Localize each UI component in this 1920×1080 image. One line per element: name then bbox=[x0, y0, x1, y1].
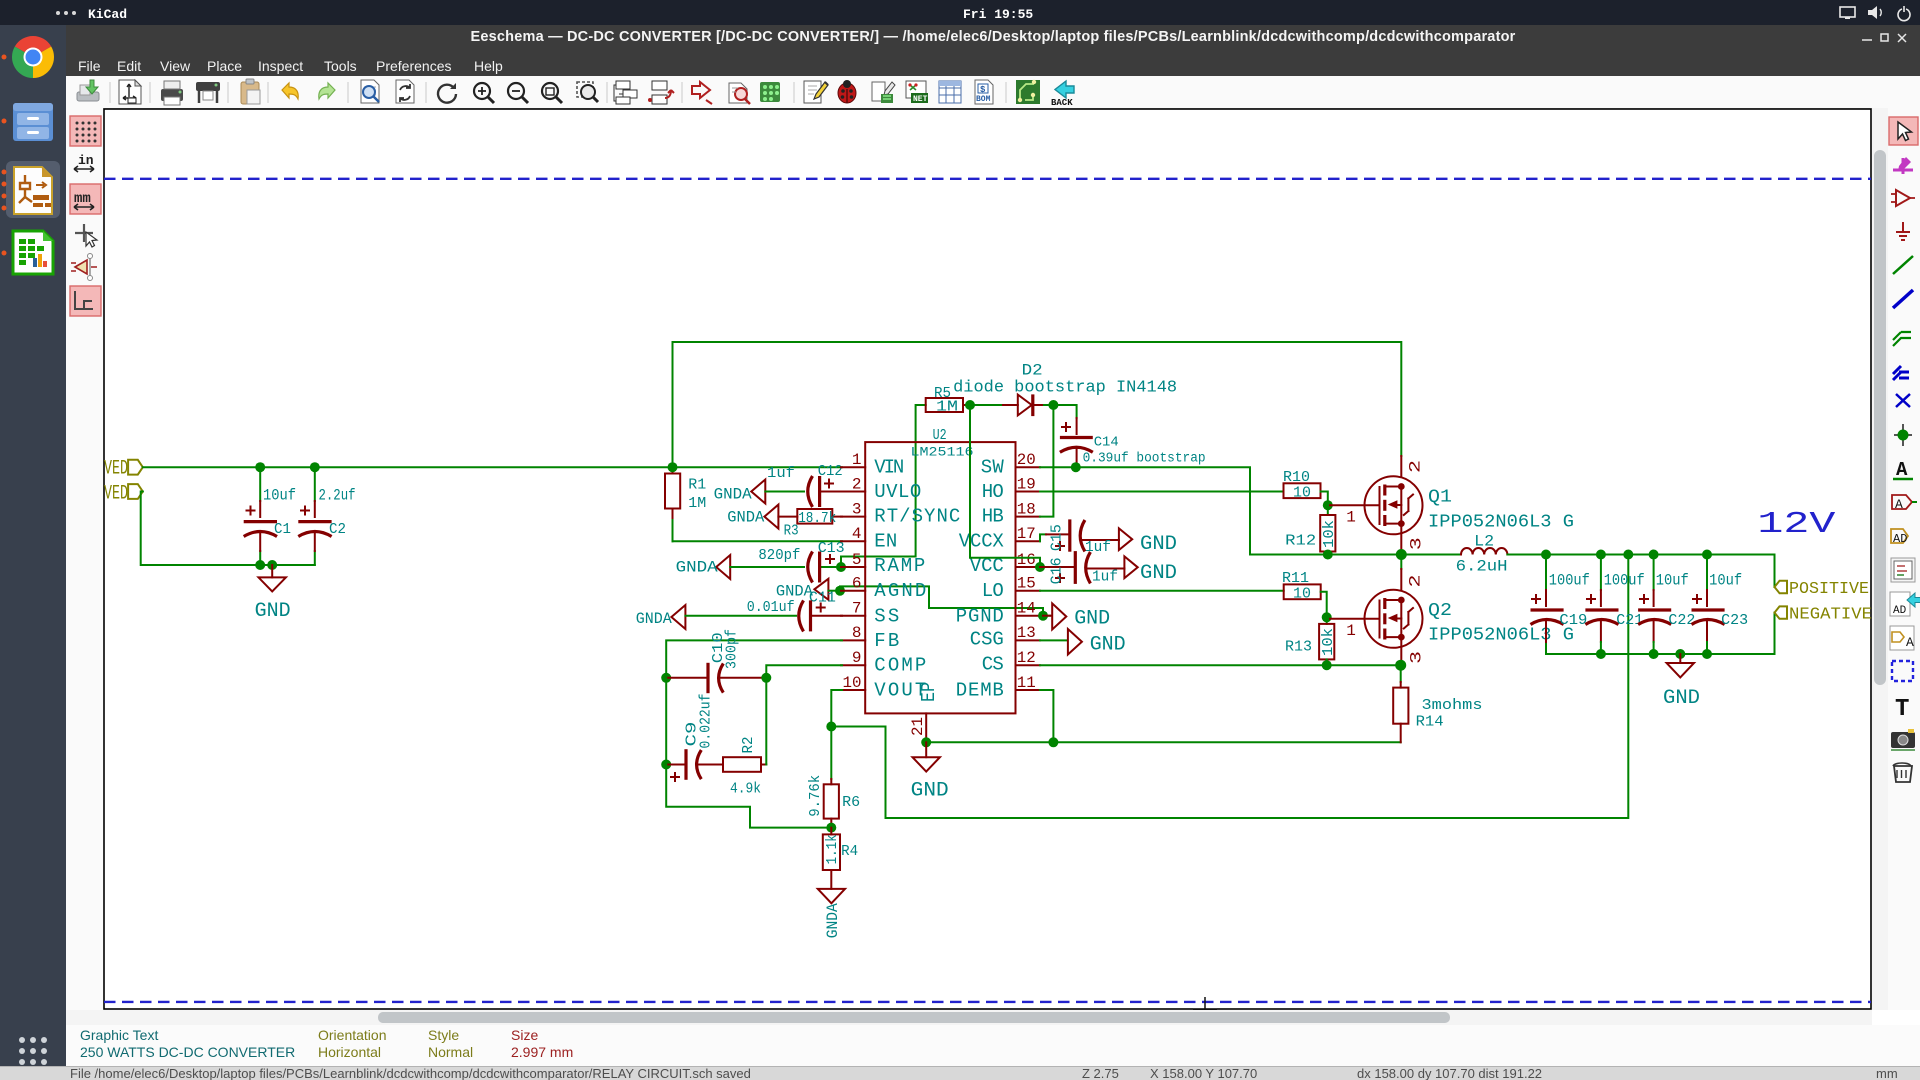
file cabinet bbox=[13, 103, 53, 141]
wire EN pin 4 bbox=[673, 540, 843, 542]
capacitor C23 bbox=[1692, 555, 1749, 655]
svg-text:L2: L2 bbox=[1474, 533, 1494, 551]
hierarchy navigator bbox=[614, 81, 637, 104]
wire R11 to Q2 gate node bbox=[1321, 592, 1327, 618]
node cap bottom junction dots bbox=[255, 560, 265, 570]
svg-text:3: 3 bbox=[1408, 537, 1426, 550]
node C9 left junction bbox=[661, 760, 671, 770]
svg-text:0.022uf: 0.022uf bbox=[698, 694, 715, 749]
node VOUT junction bbox=[826, 722, 836, 732]
svg-text:C15: C15 bbox=[1049, 524, 1066, 551]
left dock bbox=[0, 25, 66, 1080]
app grid bbox=[19, 1037, 47, 1065]
svg-text:1M: 1M bbox=[688, 495, 706, 512]
svg-text:16: 16 bbox=[1017, 551, 1036, 569]
svg-text:10uf: 10uf bbox=[1656, 572, 1689, 590]
node output rail dots bbox=[1541, 550, 1551, 560]
svg-text:C19: C19 bbox=[1559, 612, 1587, 629]
svg-text:C11: C11 bbox=[809, 589, 836, 606]
wire VIN rail from VED to U2 pin 1 bbox=[143, 466, 842, 468]
wire AGND pin 6 bbox=[828, 590, 842, 592]
U2 left pin names bbox=[874, 456, 960, 701]
wire VOUT pin 10 bbox=[831, 690, 842, 727]
select box bbox=[1892, 661, 1913, 681]
svg-text:GNDA: GNDA bbox=[776, 583, 813, 601]
cursor shape icon bbox=[75, 224, 93, 242]
svg-text:BOM: BOM bbox=[976, 95, 991, 104]
power symbol GNDA pin2 bbox=[714, 480, 766, 504]
resistor R5 bbox=[926, 385, 970, 416]
svg-text:D2: D2 bbox=[1022, 362, 1043, 380]
wire Q1 source to Q2 drain bbox=[1400, 555, 1402, 570]
node Q1 gate junction bbox=[1323, 500, 1333, 510]
svg-text:UVLO: UVLO bbox=[874, 481, 921, 503]
wire PGND pin 14 bbox=[1040, 615, 1050, 617]
kicad (selected) bbox=[6, 161, 60, 218]
update PCB bbox=[760, 82, 780, 102]
svg-text:SW: SW bbox=[981, 456, 1005, 478]
wire C9 node down and across to R6 bottom bbox=[666, 765, 831, 828]
capacitor C1 bbox=[244, 486, 296, 551]
resistor R4 bbox=[823, 828, 858, 889]
capacitor C11 bbox=[747, 599, 842, 631]
svg-text:100uf: 100uf bbox=[1549, 572, 1590, 590]
resistor R11 bbox=[1282, 570, 1321, 603]
resistor R3 bbox=[778, 509, 842, 539]
svg-text:CSG: CSG bbox=[970, 629, 1004, 651]
svg-text:GND: GND bbox=[1140, 533, 1177, 556]
node R6/R4 junction bbox=[826, 823, 836, 833]
svg-text:1: 1 bbox=[852, 451, 862, 469]
capacitor C9 bbox=[666, 694, 723, 782]
node R5/D2 junction bbox=[965, 400, 975, 410]
svg-text:GND: GND bbox=[1663, 687, 1700, 710]
power symbol GND C16 bbox=[1124, 556, 1177, 584]
capacitor C10 bbox=[666, 629, 766, 701]
svg-text:1uf: 1uf bbox=[767, 465, 795, 482]
node R1 top junction bbox=[668, 462, 678, 472]
node Q2 source junction bbox=[1395, 660, 1406, 671]
wire R5 right to D2 and VCC jog bbox=[970, 405, 1040, 567]
wire top loop VIN to Q1 drain bbox=[673, 342, 1402, 467]
svg-text:21: 21 bbox=[909, 717, 927, 736]
hv lines icon (selected) bbox=[70, 286, 101, 316]
svg-text:NET: NET bbox=[913, 95, 928, 104]
wire VED2 drop to cap bottoms bbox=[141, 492, 315, 566]
svg-text:GND: GND bbox=[911, 780, 949, 803]
node R13 bottom junction bbox=[1322, 660, 1332, 670]
svg-text:2: 2 bbox=[1406, 460, 1424, 473]
libreoffice calc bbox=[13, 231, 53, 274]
svg-text:IPP052N06L3 G: IPP052N06L3 G bbox=[1428, 513, 1574, 533]
svg-text:1uf: 1uf bbox=[1092, 569, 1118, 586]
svg-text:1M: 1M bbox=[936, 399, 958, 416]
node R12 bottom junction bbox=[1323, 550, 1333, 560]
svg-text:A: A bbox=[1896, 459, 1908, 481]
svg-text:R6: R6 bbox=[842, 794, 860, 811]
wire RAMP pin 5 bbox=[730, 566, 804, 568]
resistor R10 bbox=[1283, 469, 1321, 502]
wire SW pin 20 to switch node bbox=[1040, 467, 1461, 554]
svg-text:10k: 10k bbox=[1320, 628, 1337, 656]
svg-text:A: A bbox=[1906, 635, 1914, 650]
svg-text:C16: C16 bbox=[1049, 557, 1066, 584]
svg-text:GNDA: GNDA bbox=[824, 903, 842, 938]
node RAMP junction bbox=[836, 562, 846, 572]
page limit dashed bottom bbox=[104, 1001, 1871, 1003]
capacitor C12 bbox=[767, 463, 843, 507]
svg-text:C1: C1 bbox=[274, 521, 291, 538]
svg-text:RT/SYNC: RT/SYNC bbox=[874, 506, 960, 528]
svg-text:LO: LO bbox=[982, 580, 1004, 602]
svg-text:6.2uH: 6.2uH bbox=[1456, 558, 1508, 576]
bus entry bbox=[1893, 366, 1909, 380]
svg-text:R11: R11 bbox=[1282, 570, 1309, 587]
svg-text:VIN: VIN bbox=[874, 456, 904, 478]
IC U2 LM25116 bbox=[865, 427, 1015, 713]
svg-text:820pf: 820pf bbox=[758, 547, 800, 564]
node AGND junction bbox=[835, 586, 845, 596]
find bbox=[361, 80, 379, 103]
wire UVLO pin 2 bbox=[765, 491, 804, 493]
svg-text:in: in bbox=[78, 153, 94, 168]
svg-text:Q2: Q2 bbox=[1428, 601, 1452, 621]
svg-text:diode bootstrap IN4148: diode bootstrap IN4148 bbox=[953, 379, 1177, 398]
paste bbox=[241, 79, 260, 104]
power symbol GNDA pin7 bbox=[636, 605, 686, 629]
power symbol GND below C1 C2 bbox=[255, 565, 291, 623]
svg-text:11: 11 bbox=[1017, 674, 1036, 692]
wire CSG pin 13 bbox=[1040, 639, 1066, 641]
svg-text:1: 1 bbox=[1346, 622, 1356, 640]
svg-text:C14: C14 bbox=[1094, 435, 1119, 451]
wire C10 left down to C9 bbox=[665, 678, 667, 765]
wire C2 top lead bbox=[314, 467, 316, 501]
node VCC junction bbox=[1035, 562, 1045, 572]
diode D2 bbox=[953, 362, 1177, 417]
svg-text:15: 15 bbox=[1017, 575, 1036, 593]
power symbol GNDA below R4 bbox=[818, 889, 845, 938]
svg-text:HO: HO bbox=[982, 481, 1004, 503]
svg-text:13: 13 bbox=[1017, 624, 1036, 642]
svg-text:3: 3 bbox=[852, 500, 862, 518]
mm units icon (selected) bbox=[70, 184, 101, 214]
place symbol bbox=[1896, 190, 1910, 206]
svg-text:A: A bbox=[1895, 497, 1903, 512]
BOM table bbox=[939, 81, 961, 103]
node C10 right junction bbox=[761, 673, 771, 683]
svg-text:T: T bbox=[1895, 696, 1909, 723]
U2 left pin stubs bbox=[841, 467, 865, 690]
assign footprints bbox=[872, 82, 895, 103]
svg-text:C21: C21 bbox=[1616, 612, 1643, 629]
wire CS pin 12 to Q2 source bbox=[1040, 664, 1401, 666]
title bar + menu bbox=[66, 25, 1920, 76]
wire D2 anode lead bbox=[970, 404, 1003, 406]
zoom out bbox=[508, 83, 528, 103]
svg-text:1.1k: 1.1k bbox=[824, 834, 841, 864]
sheet settings bbox=[119, 80, 141, 104]
power symbol GND output bbox=[1663, 654, 1700, 710]
svg-text:20: 20 bbox=[1017, 451, 1036, 469]
bus tool bbox=[1893, 290, 1913, 308]
U2 left pin numbers bbox=[843, 451, 862, 692]
wire COMP pin 9 bbox=[766, 665, 842, 678]
svg-text:10uf: 10uf bbox=[1709, 572, 1742, 590]
svg-text:GNDA: GNDA bbox=[636, 610, 672, 628]
NET netlist bbox=[906, 81, 928, 104]
svg-text:C13: C13 bbox=[818, 540, 845, 557]
highlight net bbox=[1893, 158, 1913, 174]
U2 right pin numbers bbox=[1017, 451, 1036, 692]
svg-text:18.7k: 18.7k bbox=[798, 510, 836, 527]
capacitor C2 bbox=[298, 486, 355, 551]
svg-text:12V: 12V bbox=[1757, 507, 1836, 542]
place power port bbox=[1896, 222, 1910, 240]
power symbol GND PGND bbox=[1043, 603, 1110, 630]
svg-text:0.39uf bootstrap: 0.39uf bootstrap bbox=[1083, 451, 1206, 467]
wire C1 bottom bbox=[259, 551, 261, 565]
svg-text:GNDA: GNDA bbox=[727, 509, 764, 527]
svg-text:NEGATIVE: NEGATIVE bbox=[1789, 606, 1872, 625]
undo bbox=[282, 83, 298, 99]
svg-text:Q1: Q1 bbox=[1428, 488, 1452, 508]
global label VED (top) bbox=[104, 458, 143, 481]
wire DEMB pin 11 drop bbox=[1040, 690, 1053, 742]
wire VOUT feedback loop to output bbox=[831, 555, 1628, 819]
power symbol GND C15 bbox=[1119, 528, 1177, 556]
redo bbox=[319, 83, 335, 99]
U2 pin EP stub 21 bbox=[909, 682, 940, 740]
SCHEMATIC CANVAS bbox=[103, 108, 1872, 1010]
svg-text:FB: FB bbox=[874, 630, 899, 652]
delete tool bbox=[1894, 766, 1912, 782]
wire output rail top bbox=[1507, 555, 1774, 588]
wire HO pin 19 to R10 bbox=[1040, 491, 1284, 493]
svg-text:R2: R2 bbox=[740, 737, 757, 754]
capacitor C19 bbox=[1531, 555, 1590, 643]
inductor L2 bbox=[1456, 533, 1508, 576]
svg-text:3mohms: 3mohms bbox=[1422, 697, 1483, 714]
svg-text:RAMP: RAMP bbox=[874, 555, 925, 577]
global label bbox=[1892, 495, 1912, 509]
svg-text:LM25116: LM25116 bbox=[911, 445, 974, 460]
wire D2 to C14 bbox=[1053, 405, 1076, 418]
svg-text:R1: R1 bbox=[688, 477, 706, 494]
redraw bbox=[438, 83, 456, 103]
svg-text:GND: GND bbox=[1090, 634, 1126, 657]
wire C2 bottom bbox=[314, 551, 316, 565]
node EP junction bbox=[921, 737, 931, 747]
node C14/SW junction bbox=[1071, 462, 1081, 472]
svg-text:1: 1 bbox=[1346, 509, 1356, 527]
image tool bbox=[1891, 732, 1915, 748]
back annotate bbox=[1051, 81, 1074, 108]
svg-text:GND: GND bbox=[255, 600, 291, 623]
wire RAMP stub to U2 bbox=[841, 566, 842, 568]
zoom to selection bbox=[577, 82, 598, 102]
svg-text:GND: GND bbox=[1140, 562, 1177, 585]
chrome icon bbox=[15, 36, 51, 57]
save bbox=[77, 80, 99, 101]
svg-text:VED: VED bbox=[104, 483, 128, 506]
svg-text:HB: HB bbox=[982, 506, 1004, 528]
node Q1 source junction bbox=[1396, 549, 1407, 560]
annotate bbox=[692, 82, 712, 104]
svg-text:C22: C22 bbox=[1668, 612, 1695, 629]
svg-text:C12: C12 bbox=[818, 463, 843, 480]
svg-text:10: 10 bbox=[1293, 586, 1311, 603]
capacitor C14 bbox=[1060, 418, 1206, 467]
svg-text:2: 2 bbox=[1406, 575, 1424, 588]
hierarchical label bbox=[1891, 529, 1908, 543]
wire C14 bottom to SW bbox=[1076, 464, 1078, 467]
separators bbox=[110, 82, 1006, 103]
svg-text:AD: AD bbox=[1893, 532, 1907, 546]
zoom fit bbox=[542, 83, 562, 103]
zoom in bbox=[474, 83, 494, 103]
svg-text:2: 2 bbox=[852, 475, 862, 493]
svg-text:C23: C23 bbox=[1721, 612, 1748, 629]
svg-text:VCCX: VCCX bbox=[959, 530, 1005, 552]
resistor R13 bbox=[1285, 617, 1337, 665]
BOM doc bbox=[975, 80, 993, 104]
find replace bbox=[396, 80, 414, 103]
svg-text:GNDA: GNDA bbox=[714, 485, 752, 503]
resistor R12 bbox=[1285, 505, 1338, 554]
svg-text:14: 14 bbox=[1017, 600, 1036, 618]
svg-text:4: 4 bbox=[852, 525, 862, 543]
svg-text:DEMB: DEMB bbox=[956, 679, 1004, 701]
power symbol GNDA pin6 bbox=[776, 579, 829, 601]
svg-text:5: 5 bbox=[852, 551, 862, 569]
svg-text:VED: VED bbox=[104, 458, 128, 481]
hierarchical label NEGATIVE bbox=[1775, 606, 1873, 625]
svg-text:R14: R14 bbox=[1416, 714, 1444, 731]
node C10 left junction bbox=[661, 673, 671, 683]
svg-text:100uf: 100uf bbox=[1604, 572, 1645, 590]
capacitor C15 bbox=[1046, 519, 1119, 556]
svg-text:POSITIVE: POSITIVE bbox=[1789, 580, 1869, 599]
wire RAMP jog up to R5 bbox=[841, 405, 926, 567]
junction bbox=[1902, 424, 1904, 446]
top system panel bbox=[0, 0, 1920, 25]
leave sheet bbox=[648, 81, 674, 104]
svg-text:$: $ bbox=[980, 85, 986, 95]
node DEMB/EP junction bbox=[1048, 737, 1058, 747]
resistor R1 bbox=[665, 467, 706, 541]
svg-text:VOUT: VOUT bbox=[874, 679, 926, 701]
ERC check bbox=[729, 83, 750, 104]
wire AGND to PGND loop bbox=[840, 586, 1043, 615]
wire LO pin 15 to R11 bbox=[1040, 590, 1284, 592]
mouse cursor bbox=[1193, 997, 1217, 1009]
svg-text:9: 9 bbox=[852, 649, 862, 667]
node PGND junction bbox=[1038, 611, 1048, 621]
power symbol GND EP bbox=[911, 742, 949, 802]
capacitor C21 bbox=[1585, 555, 1644, 655]
svg-text:PGND: PGND bbox=[956, 605, 1004, 627]
svg-text:6: 6 bbox=[852, 575, 862, 593]
wire D2 to HB pin 18 bbox=[1040, 405, 1053, 517]
grid icon (selected) bbox=[70, 116, 101, 146]
svg-text:10: 10 bbox=[843, 674, 862, 692]
plot bbox=[196, 82, 220, 103]
pcbnew bbox=[1016, 80, 1040, 104]
hierarchical sheet bbox=[1891, 558, 1915, 582]
svg-text:10k: 10k bbox=[1321, 520, 1338, 548]
node bottom rail dots bbox=[1596, 649, 1606, 659]
hierarchical label POSITIVE bbox=[1775, 580, 1870, 599]
power symbol GNDA pin5 bbox=[676, 555, 731, 579]
print bbox=[161, 81, 183, 105]
wire FB pin 8 to C10 bbox=[666, 640, 842, 677]
svg-text:4.9k: 4.9k bbox=[730, 781, 761, 798]
global label VED (bottom) bbox=[104, 483, 143, 506]
wire VCCX jog bbox=[1040, 534, 1046, 541]
svg-text:12: 12 bbox=[1017, 649, 1036, 667]
svg-text:3: 3 bbox=[1408, 651, 1426, 664]
wire R10 to Q1 gate node bbox=[1321, 492, 1328, 506]
svg-text:AD: AD bbox=[1893, 605, 1907, 617]
transistor Q1 bbox=[1330, 456, 1574, 553]
svg-text:SS: SS bbox=[874, 605, 899, 627]
svg-text:GNDA: GNDA bbox=[676, 558, 718, 576]
svg-text:R12: R12 bbox=[1285, 532, 1316, 549]
svg-text:R4: R4 bbox=[841, 843, 858, 860]
svg-text:18: 18 bbox=[1017, 500, 1036, 518]
wire tool bbox=[1893, 256, 1913, 274]
capacitor C13 bbox=[758, 540, 844, 583]
node Q2 gate junction bbox=[1322, 612, 1332, 622]
svg-text:IPP052N06L3 G: IPP052N06L3 G bbox=[1428, 626, 1574, 646]
svg-text:COMP: COMP bbox=[874, 655, 926, 677]
svg-text:C2: C2 bbox=[329, 521, 346, 538]
transistor Q2 bbox=[1330, 569, 1574, 664]
page limit dashed top bbox=[104, 178, 1871, 180]
wire entry bbox=[1893, 332, 1911, 346]
power symbol GND CSG bbox=[1068, 629, 1126, 657]
cursor tool (selected) bbox=[1889, 117, 1918, 145]
node VIN junction dots bbox=[255, 462, 265, 472]
svg-text:19: 19 bbox=[1017, 475, 1036, 493]
svg-text:CS: CS bbox=[982, 653, 1004, 675]
svg-text:2.2uf: 2.2uf bbox=[319, 486, 356, 504]
svg-text:U2: U2 bbox=[933, 427, 947, 444]
wire EP rail to R14 bbox=[926, 741, 1400, 743]
svg-text:R10: R10 bbox=[1283, 469, 1310, 486]
resistor R6 bbox=[807, 727, 860, 828]
capacitor C16 bbox=[1040, 551, 1125, 585]
svg-text:300pf: 300pf bbox=[724, 629, 741, 669]
sheet pin bbox=[1890, 626, 1914, 650]
svg-text:GND: GND bbox=[1074, 608, 1110, 631]
svg-text:9.76k: 9.76k bbox=[807, 775, 824, 817]
wire SS pin 7 bbox=[685, 615, 796, 617]
wire output rail bottom bbox=[1546, 613, 1775, 654]
power symbol GNDA pin3 bbox=[727, 505, 778, 529]
capacitor C22 bbox=[1638, 555, 1695, 655]
svg-text:17: 17 bbox=[1017, 525, 1036, 543]
wire C1 top lead bbox=[259, 467, 261, 501]
resistor R14 bbox=[1393, 665, 1482, 742]
ladybug ERC bbox=[838, 80, 856, 103]
sheet border frame bbox=[104, 109, 1871, 1009]
no connect bbox=[1896, 394, 1910, 407]
svg-text:8: 8 bbox=[852, 624, 862, 642]
svg-text:KiCad: KiCad bbox=[88, 7, 127, 22]
svg-text:AGND: AGND bbox=[874, 580, 926, 602]
